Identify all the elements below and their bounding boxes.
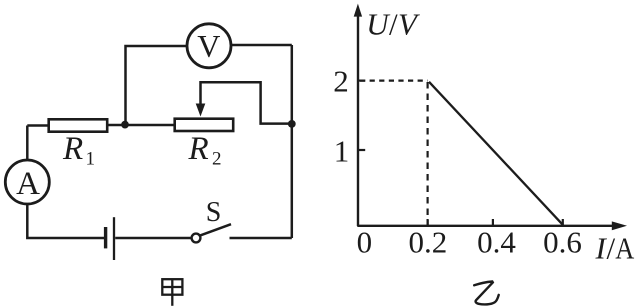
svg-text:2: 2 — [333, 64, 349, 99]
svg-text:/: / — [389, 6, 398, 41]
wire: left vertical from main wire down to ammeter — [26, 126, 29, 161]
y tick at U=2 — [358, 79, 365, 81]
wire: top right to voltmeter — [231, 44, 292, 47]
svg-text:A: A — [615, 232, 634, 266]
wire: switch fixed contact to bottom-right corner — [230, 237, 292, 240]
wire: main horizontal from left corner to R1 — [27, 124, 48, 127]
dashed guide vertical at I=0.2 — [427, 82, 429, 225]
svg-text:1: 1 — [334, 134, 350, 169]
svg-text:1: 1 — [86, 149, 96, 170]
switch S pivot circle — [192, 234, 201, 243]
resistor R1 — [49, 119, 107, 131]
voltmeter V1 — [187, 24, 231, 68]
resistor R2 (rheostat body) — [175, 119, 234, 131]
svg-text:0.2: 0.2 — [409, 225, 448, 260]
dashed guide horizontal at U=2 — [360, 79, 428, 81]
svg-text:R: R — [62, 131, 83, 167]
x tick at I=0.4 — [492, 219, 494, 226]
wire: ammeter bottom to bottom-left corner — [27, 204, 104, 238]
rheostat wiper arrow shaft and bracket to node B — [201, 82, 292, 123]
wire: R1 right terminal to R2 left terminal — [107, 124, 175, 127]
svg-text:V: V — [197, 28, 220, 64]
svg-text:0.6: 0.6 — [543, 225, 582, 260]
svg-text:V: V — [398, 6, 420, 41]
svg-text:S: S — [206, 197, 222, 228]
label yi (Chinese: second) under graph — [474, 282, 499, 305]
battery negative plate (short thick) — [104, 227, 107, 248]
svg-text:/: / — [607, 231, 616, 266]
svg-text:R: R — [188, 131, 209, 167]
svg-text:U: U — [366, 6, 391, 41]
svg-text:A: A — [16, 166, 40, 202]
ammeter A1 — [5, 160, 49, 204]
rheostat wiper arrowhead — [196, 104, 206, 117]
graph y-axis — [357, 14, 359, 226]
svg-text:0.4: 0.4 — [477, 225, 516, 260]
battery positive plate (long thin) — [113, 217, 115, 260]
node B junction dot — [288, 120, 296, 128]
x tick at I=0.2 — [427, 219, 429, 226]
node A junction dot — [121, 121, 129, 129]
wire: right vertical from bottom corner up to top corner — [291, 45, 294, 238]
graph x-axis arrowhead — [612, 221, 627, 230]
switch S lever — [200, 224, 231, 235]
U-I characteristic line — [429, 82, 563, 225]
graph y-axis arrowhead — [354, 4, 362, 17]
graph x-axis — [357, 225, 616, 227]
svg-text:2: 2 — [212, 149, 222, 170]
y tick at U=1 — [358, 149, 365, 151]
label jia (Chinese: first) under circuit — [162, 279, 182, 306]
x tick at I=0.6 — [562, 219, 564, 226]
svg-text:0: 0 — [357, 225, 373, 260]
wire: battery to switch pivot — [115, 237, 191, 240]
wire: voltmeter left to drop-down corner — [126, 46, 187, 125]
